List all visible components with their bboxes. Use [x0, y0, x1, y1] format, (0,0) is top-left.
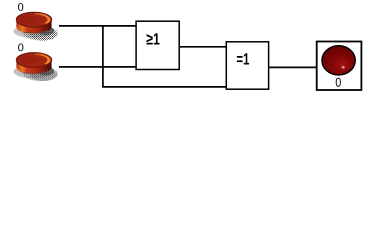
wire XOR to LED: [269, 66, 317, 68]
wire button2 to OR: [59, 66, 137, 68]
XOR gate box: [226, 42, 268, 89]
wire vertical branch: [102, 26, 104, 87]
XOR gate label: [237, 53, 249, 64]
label 0 (button 2): [18, 44, 23, 52]
label 0 (button 1): [18, 3, 23, 11]
push button S2: [13, 53, 58, 81]
LED box: [317, 42, 362, 91]
LED lamp: [322, 46, 355, 75]
wire button1 to OR: [59, 25, 137, 27]
LED highlight: [341, 65, 346, 70]
LED label 0: [336, 78, 341, 87]
OR gate label: [147, 33, 160, 44]
wire OR to XOR: [179, 46, 227, 48]
wire bottom rail: [102, 86, 226, 88]
OR gate box: [136, 21, 179, 69]
push button S1: [13, 12, 58, 40]
